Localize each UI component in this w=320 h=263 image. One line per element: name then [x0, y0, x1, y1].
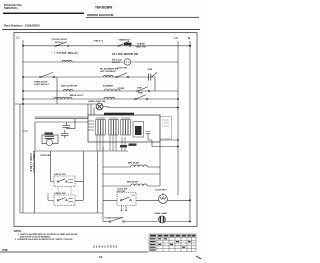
- lock motor M: [124, 59, 130, 65]
- svg-text:1. SWITCH SHOWN WITH AC SOURCE: 1. SWITCH SHOWN WITH AC SOURCE OF HEAT A…: [18, 233, 78, 236]
- svg-text:BROIL HI-LO: BROIL HI-LO: [70, 95, 84, 97]
- legend header smudge: [150, 235, 195, 237]
- wire branch x57: [56, 77, 58, 104]
- svg-text:* BAKE RLY: * BAKE RLY: [118, 39, 131, 42]
- wire latch2 left stub: [48, 193, 54, 200]
- notes: [14, 230, 78, 241]
- element small rung3: [104, 75, 114, 77]
- svg-text:CORD L1 BLK: CORD L1 BLK: [29, 153, 32, 172]
- svg-text:LATCH SW: LATCH SW: [54, 192, 66, 195]
- header publication text: [4, 4, 23, 10]
- node dot lock-N: [189, 199, 191, 201]
- svg-text:* CLEAN: * CLEAN: [136, 43, 145, 46]
- header left rule: [3, 13, 84, 14]
- motor box A: [42, 135, 58, 144]
- label electronic oven control: [104, 113, 134, 116]
- switch rung4: [138, 87, 148, 91]
- wire loop A left: [34, 122, 36, 151]
- switch latch 1: [59, 179, 66, 182]
- switch mid rung3: [117, 73, 127, 77]
- node dot light-N: [189, 221, 191, 223]
- broil rung: [103, 166, 160, 168]
- svg-text:TEMP SW: TEMP SW: [136, 46, 147, 48]
- wire rung6 lamp: [15, 103, 96, 105]
- svg-text:NOTE:: NOTE:: [14, 230, 22, 233]
- wire x75: [67, 119, 76, 129]
- svg-text:7/98: 7/98: [2, 248, 8, 252]
- element rung4 left: [64, 89, 74, 91]
- terminal pair 2: [61, 130, 69, 138]
- svg-text:LATCH SW: LATCH SW: [54, 173, 66, 176]
- wire loop A bottom: [35, 150, 128, 152]
- svg-text:* DOOR LATCH: * DOOR LATCH: [51, 38, 67, 41]
- node dot rung1 left: [22, 45, 24, 47]
- svg-text:TSTAT: TSTAT: [118, 87, 125, 90]
- switch door latch: [51, 38, 69, 46]
- svg-text:CONV FAN: CONV FAN: [40, 154, 51, 157]
- svg-text:OVEN DOOR: OVEN DOOR: [34, 81, 48, 83]
- svg-text:316022003: 316022003: [93, 245, 118, 249]
- terminal pair 1: [63, 122, 71, 127]
- bake element: [131, 184, 148, 186]
- wire double feed left: [35, 117, 88, 119]
- bus tick: [23, 130, 28, 132]
- svg-text:ELEMENT: ELEMENT: [103, 86, 114, 88]
- wire drop x97.5: [97, 151, 99, 213]
- broil element: [131, 165, 148, 167]
- switch lock: [122, 197, 130, 200]
- block left stubs: [88, 121, 94, 130]
- element rung4 mid: [104, 89, 120, 91]
- svg-text:SW N.O.: SW N.O.: [112, 62, 121, 64]
- node dot rail-L2: [177, 139, 179, 141]
- svg-text:10: 10: [99, 255, 103, 259]
- diagram frame: [14, 33, 197, 227]
- wire L1 return: [19, 104, 21, 213]
- title rule: [86, 16, 199, 19]
- label lock sw: [117, 188, 128, 193]
- svg-text:TEF362BW: TEF362BW: [95, 6, 113, 10]
- wire block terminal to L2: [148, 140, 178, 147]
- svg-text:BRL ELMT: BRL ELMT: [128, 163, 140, 165]
- wire N bus: [189, 41, 191, 222]
- svg-text:* T-STAT RELAY: * T-STAT RELAY: [54, 51, 78, 55]
- interbox stubs: [58, 187, 71, 196]
- svg-text:STB: STB: [148, 69, 153, 71]
- node dot rung5: [177, 98, 179, 100]
- connector plug P2: [109, 118, 119, 135]
- wire drop x34.7: [34, 151, 36, 213]
- node dot rung1-N: [189, 45, 191, 47]
- wire latch2 right: [75, 199, 83, 201]
- node dot rung5 left: [22, 98, 24, 100]
- legend col smudges: [150, 238, 191, 250]
- block terminal marks: [146, 132, 151, 141]
- wire drop x50.4: [50, 151, 54, 182]
- legend table: [149, 234, 196, 251]
- node dot rung6 right: [177, 107, 179, 109]
- wire feeders into block top: [88, 104, 94, 115]
- node dot rung4: [22, 90, 24, 92]
- connector plug P1: [96, 118, 106, 135]
- svg-text:MDL DOOR SW: MDL DOOR SW: [61, 86, 78, 88]
- label under block 1: [120, 145, 127, 147]
- svg-text:L1: L1: [17, 36, 21, 40]
- svg-text:HOT SURFACE: HOT SURFACE: [100, 70, 116, 73]
- wire center drop: [102, 147, 104, 222]
- svg-text:2. OPERATE ON A 240V SOURCE OF: 2. OPERATE ON A 240V SOURCE OF HT. SUPPL…: [15, 238, 73, 241]
- wire L2 bus: [177, 41, 179, 195]
- label cluster right: [136, 43, 147, 49]
- element rung5 left: [54, 97, 72, 99]
- svg-text:STB: STB: [137, 87, 142, 89]
- svg-text:LOCK SW: LOCK SW: [117, 68, 127, 70]
- dashed box latch 1: [54, 176, 75, 187]
- wire rung5: [23, 98, 178, 100]
- svg-text:SW N.O.: SW N.O.: [55, 42, 64, 44]
- svg-text:SPB: SPB: [138, 93, 143, 95]
- footer rule: [0, 251, 148, 254]
- part number rule: [2, 28, 200, 31]
- element rung5 mid: [104, 97, 115, 99]
- dashed box latch 2: [54, 195, 75, 206]
- oven lamp: [96, 103, 103, 110]
- node dot terminal-L2: [177, 146, 179, 148]
- lock box stubs: [122, 206, 127, 211]
- wire rung1: [23, 45, 190, 47]
- switch oven light: [111, 218, 122, 222]
- oven lamp 2: [158, 216, 165, 223]
- svg-text:LIGHT SW N.O.: LIGHT SW N.O.: [34, 84, 50, 86]
- wire L1 bus: [22, 40, 24, 213]
- middle tie: [103, 173, 160, 175]
- svg-text:OF LOCK MOTOR SW: OF LOCK MOTOR SW: [112, 53, 139, 56]
- wire rail to L2: [160, 139, 178, 141]
- node dot rung6: [22, 103, 24, 105]
- label rung3 stack: [112, 59, 123, 64]
- svg-text:MOTOR: MOTOR: [117, 191, 126, 193]
- svg-text:LOCK SW: LOCK SW: [117, 188, 128, 190]
- svg-text:5995270411: 5995270411: [4, 7, 18, 10]
- wires below block: [97, 135, 125, 151]
- label rung3 element: [100, 68, 119, 73]
- lock rung: [103, 199, 190, 201]
- wire element rail: [159, 140, 161, 186]
- svg-text:N: N: [188, 36, 190, 40]
- label box A: [45, 132, 54, 134]
- dashed lock switch box: [117, 193, 136, 206]
- svg-text:OVEN LAMP: OVEN LAMP: [154, 212, 168, 215]
- node dot rung3: [22, 76, 24, 78]
- label under block 2: [129, 144, 137, 146]
- svg-text:* SELF CL: * SELF CL: [93, 40, 104, 42]
- connector plug P3: [121, 118, 131, 135]
- svg-text:Part Number - 316022003: Part Number - 316022003: [4, 24, 40, 28]
- bake rung: [103, 185, 160, 187]
- switch rung5: [136, 95, 146, 99]
- EOC block: [88, 115, 160, 142]
- switch bake relay: [118, 39, 132, 47]
- corner mark: [196, 256, 201, 259]
- svg-text:L2: L2: [175, 36, 179, 40]
- svg-text:OVEN LIGHT SW: OVEN LIGHT SW: [88, 101, 106, 103]
- wire bottom return: [20, 212, 103, 214]
- switch oven door: [34, 72, 55, 86]
- block right aux box: [160, 117, 172, 140]
- wire rung2: [23, 61, 178, 63]
- svg-text:BKE ELMT: BKE ELMT: [127, 182, 139, 184]
- wire rung3: [23, 77, 155, 91]
- vertical supply text: [29, 151, 35, 173]
- svg-text:MX LOCK: MX LOCK: [112, 59, 123, 61]
- wire drop x83.3: [82, 151, 84, 200]
- wire latch1 right: [75, 181, 83, 183]
- motor circle A: [46, 139, 52, 145]
- switch latch 2: [59, 198, 66, 201]
- relay coil: [62, 60, 72, 62]
- capacitor bars rung3: [149, 74, 151, 81]
- lock motor circle: [159, 195, 168, 204]
- svg-text:AND DOOR LOCK IN NORMAL.: AND DOOR LOCK IN NORMAL.: [20, 235, 51, 238]
- svg-text:LOCK MOT: LOCK MOT: [155, 190, 167, 192]
- wire rung4: [23, 90, 178, 92]
- light rung: [103, 221, 190, 223]
- wire loop A top: [35, 121, 88, 123]
- wire rung6 right: [103, 107, 178, 108]
- svg-text:WIRING DIAGRAM: WIRING DIAGRAM: [87, 13, 114, 17]
- relay box inside block: [133, 122, 144, 138]
